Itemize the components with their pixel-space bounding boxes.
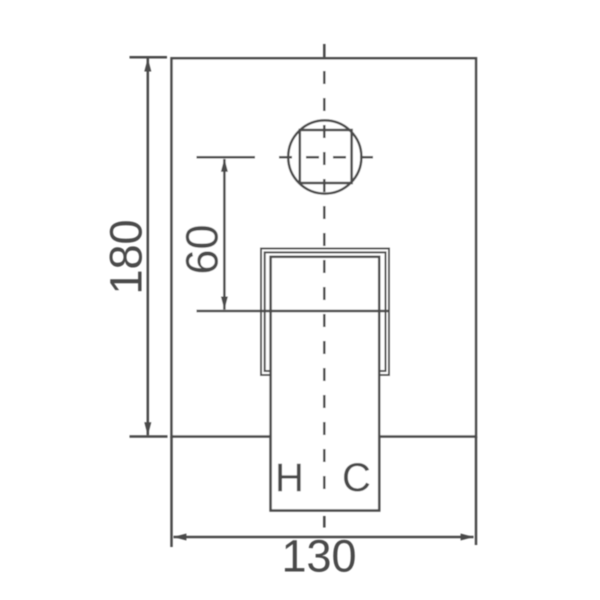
svg-text:60: 60 <box>177 224 228 274</box>
svg-text:130: 130 <box>281 531 356 582</box>
dimension 130 right arrowhead <box>461 534 474 541</box>
escutcheon outer square <box>261 249 389 376</box>
dimension 60 bottom arrowhead <box>221 297 228 310</box>
lever handle body <box>271 257 380 511</box>
escutcheon inner square <box>265 252 386 371</box>
diverter square <box>300 130 352 183</box>
vertical dashed centerline <box>323 44 326 502</box>
dimension 60 top extension line <box>197 156 256 159</box>
svg-text:180: 180 <box>101 219 152 294</box>
svg-text:C: C <box>342 456 371 500</box>
dimension 130 right extension line <box>475 437 478 546</box>
dimension 60 line <box>223 159 226 310</box>
dimension 130 line <box>174 536 474 539</box>
horizontal dashed centerline <box>279 156 375 159</box>
dimension 180 top arrowhead <box>144 58 151 71</box>
mounting plate outline <box>172 58 477 436</box>
dimension 180 bottom extension line <box>130 435 168 438</box>
vertical centerline bottom dash <box>323 516 326 528</box>
diverter knob circle <box>288 120 361 193</box>
svg-text:H: H <box>275 456 304 500</box>
dimension 60 bottom extension line <box>197 310 390 313</box>
dimension 130 left arrowhead <box>173 534 186 541</box>
dimension 180 top extension line <box>130 56 168 59</box>
dimension 180 bottom arrowhead <box>144 422 151 435</box>
dimension 180 line <box>147 59 150 436</box>
dimension 60 top arrowhead <box>221 159 228 172</box>
dimension 130 left extension line <box>170 437 173 548</box>
